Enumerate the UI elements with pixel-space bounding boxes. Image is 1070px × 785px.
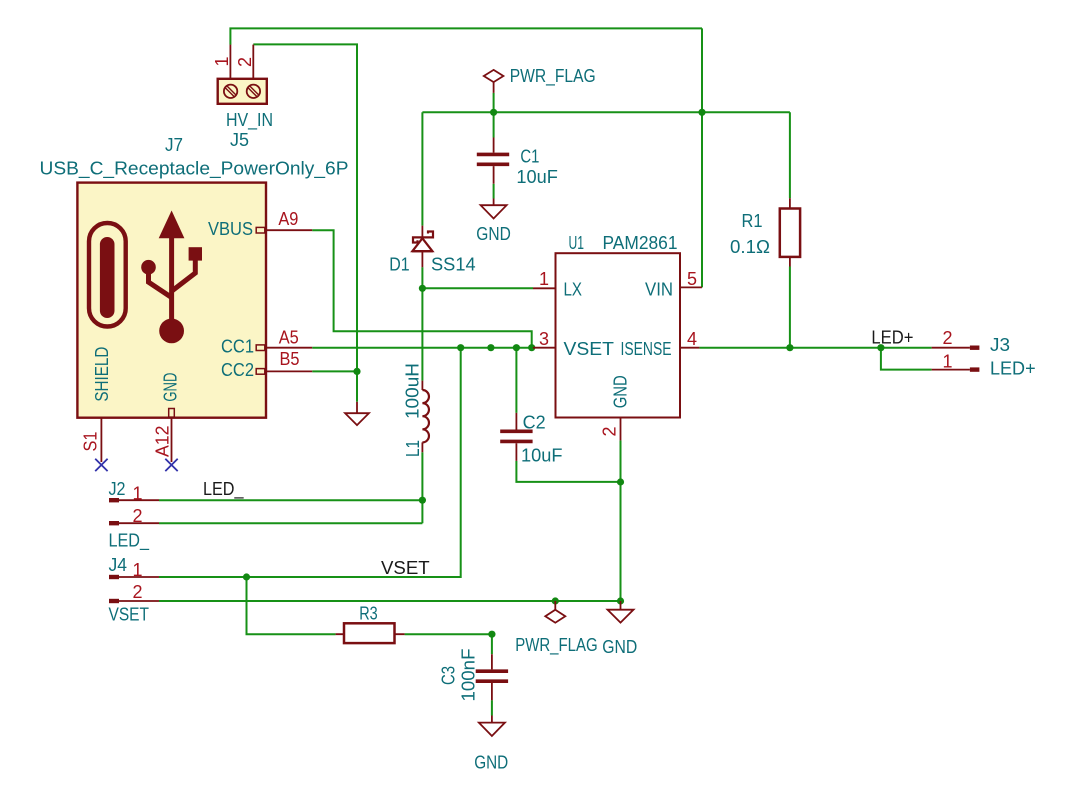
svg-text:GND: GND bbox=[476, 224, 511, 244]
svg-text:J3: J3 bbox=[990, 335, 1010, 355]
wire C2 bottom to U1 GND column bbox=[516, 461, 620, 482]
U1 pin 1 LX bbox=[533, 287, 556, 289]
svg-text:R3: R3 bbox=[359, 604, 378, 624]
svg-text:LED_: LED_ bbox=[109, 531, 150, 552]
junction VIN column bbox=[698, 109, 705, 116]
junction GND bottom node bbox=[617, 597, 624, 604]
svg-text:LED_: LED_ bbox=[203, 479, 244, 500]
connector J4 pin 1 bbox=[109, 575, 119, 579]
svg-text:CC2: CC2 bbox=[221, 360, 254, 380]
svg-text:1: 1 bbox=[943, 352, 953, 372]
svg-text:2: 2 bbox=[133, 506, 143, 526]
pin CC2 B5 square bbox=[256, 369, 265, 375]
svg-text:100nF: 100nF bbox=[458, 649, 478, 702]
capacitor C1 bbox=[477, 154, 509, 164]
wire L1 bottom to J2 bbox=[421, 452, 423, 523]
svg-text:5: 5 bbox=[687, 269, 697, 289]
wire R3 right to C3 node bbox=[405, 633, 492, 635]
no-connect S1 bbox=[95, 459, 107, 471]
connector J4 pin 2 bbox=[109, 599, 119, 603]
no-connect A12 bbox=[165, 459, 177, 471]
inductor L1 bbox=[422, 390, 429, 442]
op-amp U1 PAM2861 body bbox=[556, 253, 681, 417]
connector J2 pin 2 bbox=[109, 521, 119, 525]
wire J4 pin2 GND net bbox=[159, 600, 621, 602]
wire J2 pin2 LED_ bbox=[159, 522, 422, 524]
svg-text:1: 1 bbox=[539, 269, 549, 289]
wire C1 bottom to GND bbox=[493, 184, 495, 199]
svg-text:C1: C1 bbox=[520, 147, 539, 167]
svg-text:A9: A9 bbox=[278, 209, 298, 229]
svg-text:LED+: LED+ bbox=[871, 328, 913, 348]
USB trident arrow bbox=[159, 211, 185, 239]
junction VSET node VBUS bbox=[528, 344, 535, 351]
svg-text:PWR_FLAG: PWR_FLAG bbox=[515, 635, 598, 656]
capacitor C3 bbox=[476, 671, 508, 681]
wire U1 pin2 GND column bbox=[620, 440, 622, 601]
svg-text:CC1: CC1 bbox=[221, 337, 254, 357]
D1 schottky cathode bar bbox=[413, 232, 433, 243]
svg-text:VSET: VSET bbox=[109, 605, 150, 625]
svg-text:VIN: VIN bbox=[645, 280, 673, 300]
wire VBUS route bbox=[312, 230, 532, 348]
svg-text:0.1Ω: 0.1Ω bbox=[730, 237, 770, 257]
wire LX node to L1 bbox=[421, 288, 423, 380]
svg-text:VSET: VSET bbox=[564, 339, 615, 359]
svg-text:L1: L1 bbox=[403, 440, 423, 457]
wire D1 cathode column bbox=[421, 112, 423, 225]
U1 pin 2 GND bbox=[620, 418, 622, 441]
U1 pin 5 VIN bbox=[680, 286, 702, 288]
svg-text:USB_C_Receptacle_PowerOnly_6P: USB_C_Receptacle_PowerOnly_6P bbox=[40, 159, 349, 180]
svg-text:1: 1 bbox=[133, 560, 143, 580]
svg-text:GND: GND bbox=[611, 375, 631, 408]
junction R3 C3 node bbox=[488, 631, 495, 638]
svg-text:A5: A5 bbox=[279, 328, 299, 348]
svg-text:2: 2 bbox=[133, 582, 143, 602]
junction VSET J4 node bbox=[243, 573, 250, 580]
ground sym CC2 bbox=[356, 402, 358, 413]
svg-text:S1: S1 bbox=[81, 432, 101, 452]
svg-text:1: 1 bbox=[133, 484, 143, 504]
junction C1 node bbox=[490, 109, 497, 116]
wire horizontal VIN net y112 bbox=[422, 111, 790, 113]
J5 screw 1 bbox=[224, 85, 237, 98]
wire C3 top bbox=[491, 634, 493, 654]
wire J3 pin1 jog bbox=[881, 348, 932, 370]
wire C2 top from VSET net bbox=[515, 348, 517, 413]
wire top HV_IN pin1 to VIN column bbox=[230, 28, 702, 44]
svg-text:J2: J2 bbox=[109, 479, 126, 499]
svg-text:GND: GND bbox=[474, 752, 508, 772]
resistor R1 bbox=[780, 209, 800, 257]
pin GND A12 square bbox=[169, 409, 175, 418]
pin SHIELD S1 bbox=[100, 418, 102, 462]
pin CC2 B5 bbox=[266, 370, 313, 372]
svg-text:GND: GND bbox=[602, 637, 637, 657]
wire R3 left branch bbox=[247, 577, 336, 634]
ground sym C1 bbox=[493, 199, 495, 206]
svg-text:C3: C3 bbox=[439, 666, 459, 685]
wire HV_IN pin2 to GND column bbox=[253, 44, 357, 401]
USB trident small circle bbox=[141, 260, 156, 275]
U1 pin 4 ISENSE bbox=[680, 347, 699, 349]
pin VBUS A9 bbox=[266, 229, 313, 231]
svg-text:2: 2 bbox=[235, 57, 255, 67]
wire PWR_FLAG stem to C1 node bbox=[493, 93, 495, 138]
USB-C oval inner pill bbox=[100, 237, 115, 318]
svg-text:100uH: 100uH bbox=[403, 363, 423, 419]
connector J5 HV_IN body bbox=[218, 79, 267, 104]
svg-text:LED+: LED+ bbox=[990, 359, 1036, 379]
USB trident right branch bbox=[173, 259, 196, 291]
svg-text:2: 2 bbox=[600, 426, 620, 436]
svg-text:PAM2861: PAM2861 bbox=[603, 233, 678, 253]
USB trident square bbox=[189, 247, 202, 260]
svg-text:J5: J5 bbox=[230, 130, 249, 150]
wire ISENSE to J3 pin2 bbox=[699, 347, 931, 349]
svg-text:ISENSE: ISENSE bbox=[621, 339, 672, 359]
svg-text:C2: C2 bbox=[523, 412, 546, 432]
svg-text:SS14: SS14 bbox=[431, 255, 476, 275]
junction VSET node B bbox=[487, 344, 494, 351]
svg-text:2: 2 bbox=[943, 328, 953, 348]
svg-text:PWR_FLAG: PWR_FLAG bbox=[510, 66, 596, 87]
D1 anode bar bbox=[412, 250, 433, 252]
connector J3 pin 2 bbox=[932, 347, 970, 349]
svg-text:3: 3 bbox=[539, 329, 549, 349]
junction CC2 GND node bbox=[353, 368, 360, 375]
svg-text:A12: A12 bbox=[152, 426, 172, 458]
wire CC2 to GND node bbox=[312, 370, 357, 372]
wire C3 bottom to GND bbox=[491, 700, 493, 715]
svg-text:D1: D1 bbox=[389, 254, 409, 274]
junction LED_ node bbox=[419, 497, 426, 504]
junction VSET node A bbox=[457, 344, 464, 351]
junction LX node bbox=[419, 285, 426, 292]
power flag top bbox=[493, 82, 495, 93]
ground sym C3 bbox=[491, 716, 493, 723]
svg-text:J7: J7 bbox=[165, 135, 183, 155]
pin VBUS A9 square bbox=[256, 227, 265, 233]
connector J7 USB_C_Receptacle body bbox=[77, 183, 266, 418]
diode D1 SS14 triangle bbox=[412, 238, 432, 251]
junction ISENSE R1 node bbox=[786, 344, 793, 351]
svg-text:4: 4 bbox=[687, 329, 697, 349]
USB trident stem bbox=[169, 237, 174, 330]
wire J4 pin1 VSET net bbox=[159, 348, 461, 577]
resistor R3 bbox=[344, 623, 395, 643]
svg-text:VBUS: VBUS bbox=[208, 219, 253, 239]
svg-text:R1: R1 bbox=[742, 211, 763, 231]
svg-text:1: 1 bbox=[212, 56, 232, 66]
wire vertical VIN column bbox=[701, 28, 703, 287]
U1 pin 3 VSET bbox=[533, 347, 556, 349]
pin CC1 A5 bbox=[266, 347, 313, 349]
J5 pin 2 bbox=[252, 45, 254, 79]
wire R1 bottom to ISENSE net bbox=[789, 267, 791, 348]
svg-text:B5: B5 bbox=[280, 349, 300, 369]
svg-text:LX: LX bbox=[564, 280, 583, 300]
USB trident left branch bbox=[149, 272, 172, 298]
wire J2 pin1 LED_ bbox=[159, 499, 422, 501]
wire CC1 to VSET pin3 bbox=[312, 347, 533, 349]
svg-text:J4: J4 bbox=[109, 555, 128, 575]
power flag bottom bbox=[554, 601, 556, 610]
svg-text:GND: GND bbox=[160, 373, 180, 402]
D1 pins bbox=[421, 226, 423, 268]
svg-text:SHIELD: SHIELD bbox=[92, 347, 112, 402]
USB trident big circle bbox=[159, 319, 184, 344]
J5 pin 1 bbox=[229, 45, 231, 79]
svg-text:VSET: VSET bbox=[381, 558, 430, 578]
junction LED+ node bbox=[877, 344, 884, 351]
junction VSET node C2 bbox=[513, 344, 520, 351]
pin CC1 A5 square bbox=[256, 345, 265, 351]
svg-text:HV_IN: HV_IN bbox=[226, 110, 273, 131]
ground sym U1 pin2 bbox=[620, 601, 622, 610]
svg-text:10uF: 10uF bbox=[521, 446, 563, 466]
J5 screw 2 bbox=[247, 85, 260, 98]
pin GND A12 bbox=[171, 418, 173, 462]
svg-text:U1: U1 bbox=[569, 233, 585, 253]
junction PWR_FLAG bottom node bbox=[552, 597, 559, 604]
svg-text:10uF: 10uF bbox=[516, 167, 558, 187]
USB-C oval outer bbox=[89, 223, 126, 327]
wire LX net bbox=[422, 287, 533, 289]
capacitor C2 bbox=[500, 431, 532, 441]
junction C2 GND corner bbox=[617, 478, 624, 485]
wire R1 top bbox=[789, 112, 791, 198]
connector J3 pin 1 bbox=[932, 369, 970, 371]
connector J2 pin 1 bbox=[109, 498, 119, 502]
wire D1 anode to LX node bbox=[421, 267, 423, 288]
